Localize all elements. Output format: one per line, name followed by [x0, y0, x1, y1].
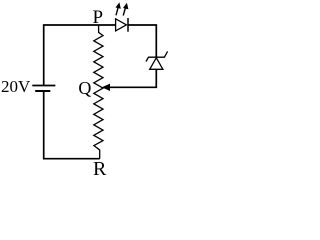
potentiometer zigzag from P to R	[94, 25, 103, 159]
wiper arrowhead pointing left at node Q	[102, 84, 110, 91]
svg-text:P: P	[93, 7, 104, 28]
LED triangle (anode)	[116, 19, 127, 31]
wire: battery + up left side and top to node P	[44, 25, 99, 86]
LED emission arrow 2	[123, 3, 128, 16]
wire: LED cathode right and down to zener cathode	[128, 25, 156, 57]
svg-text:20V: 20V	[1, 77, 31, 96]
svg-text:R: R	[93, 158, 107, 179]
svg-text:Q: Q	[78, 78, 91, 98]
LED emission arrow 1	[116, 2, 121, 15]
LED cathode bar	[127, 18, 129, 32]
zener diode cathode bar with bent ends	[146, 51, 168, 61]
wire: node P to LED anode	[99, 24, 116, 26]
battery 20V short plate (-)	[35, 90, 50, 92]
battery 20V long plate (+)	[32, 85, 55, 87]
zener diode triangle (anode)	[150, 58, 163, 70]
wire: battery - down left side and along bottom to node R	[44, 91, 100, 159]
wire: zener anode down and left to wiper arrow	[109, 69, 156, 87]
